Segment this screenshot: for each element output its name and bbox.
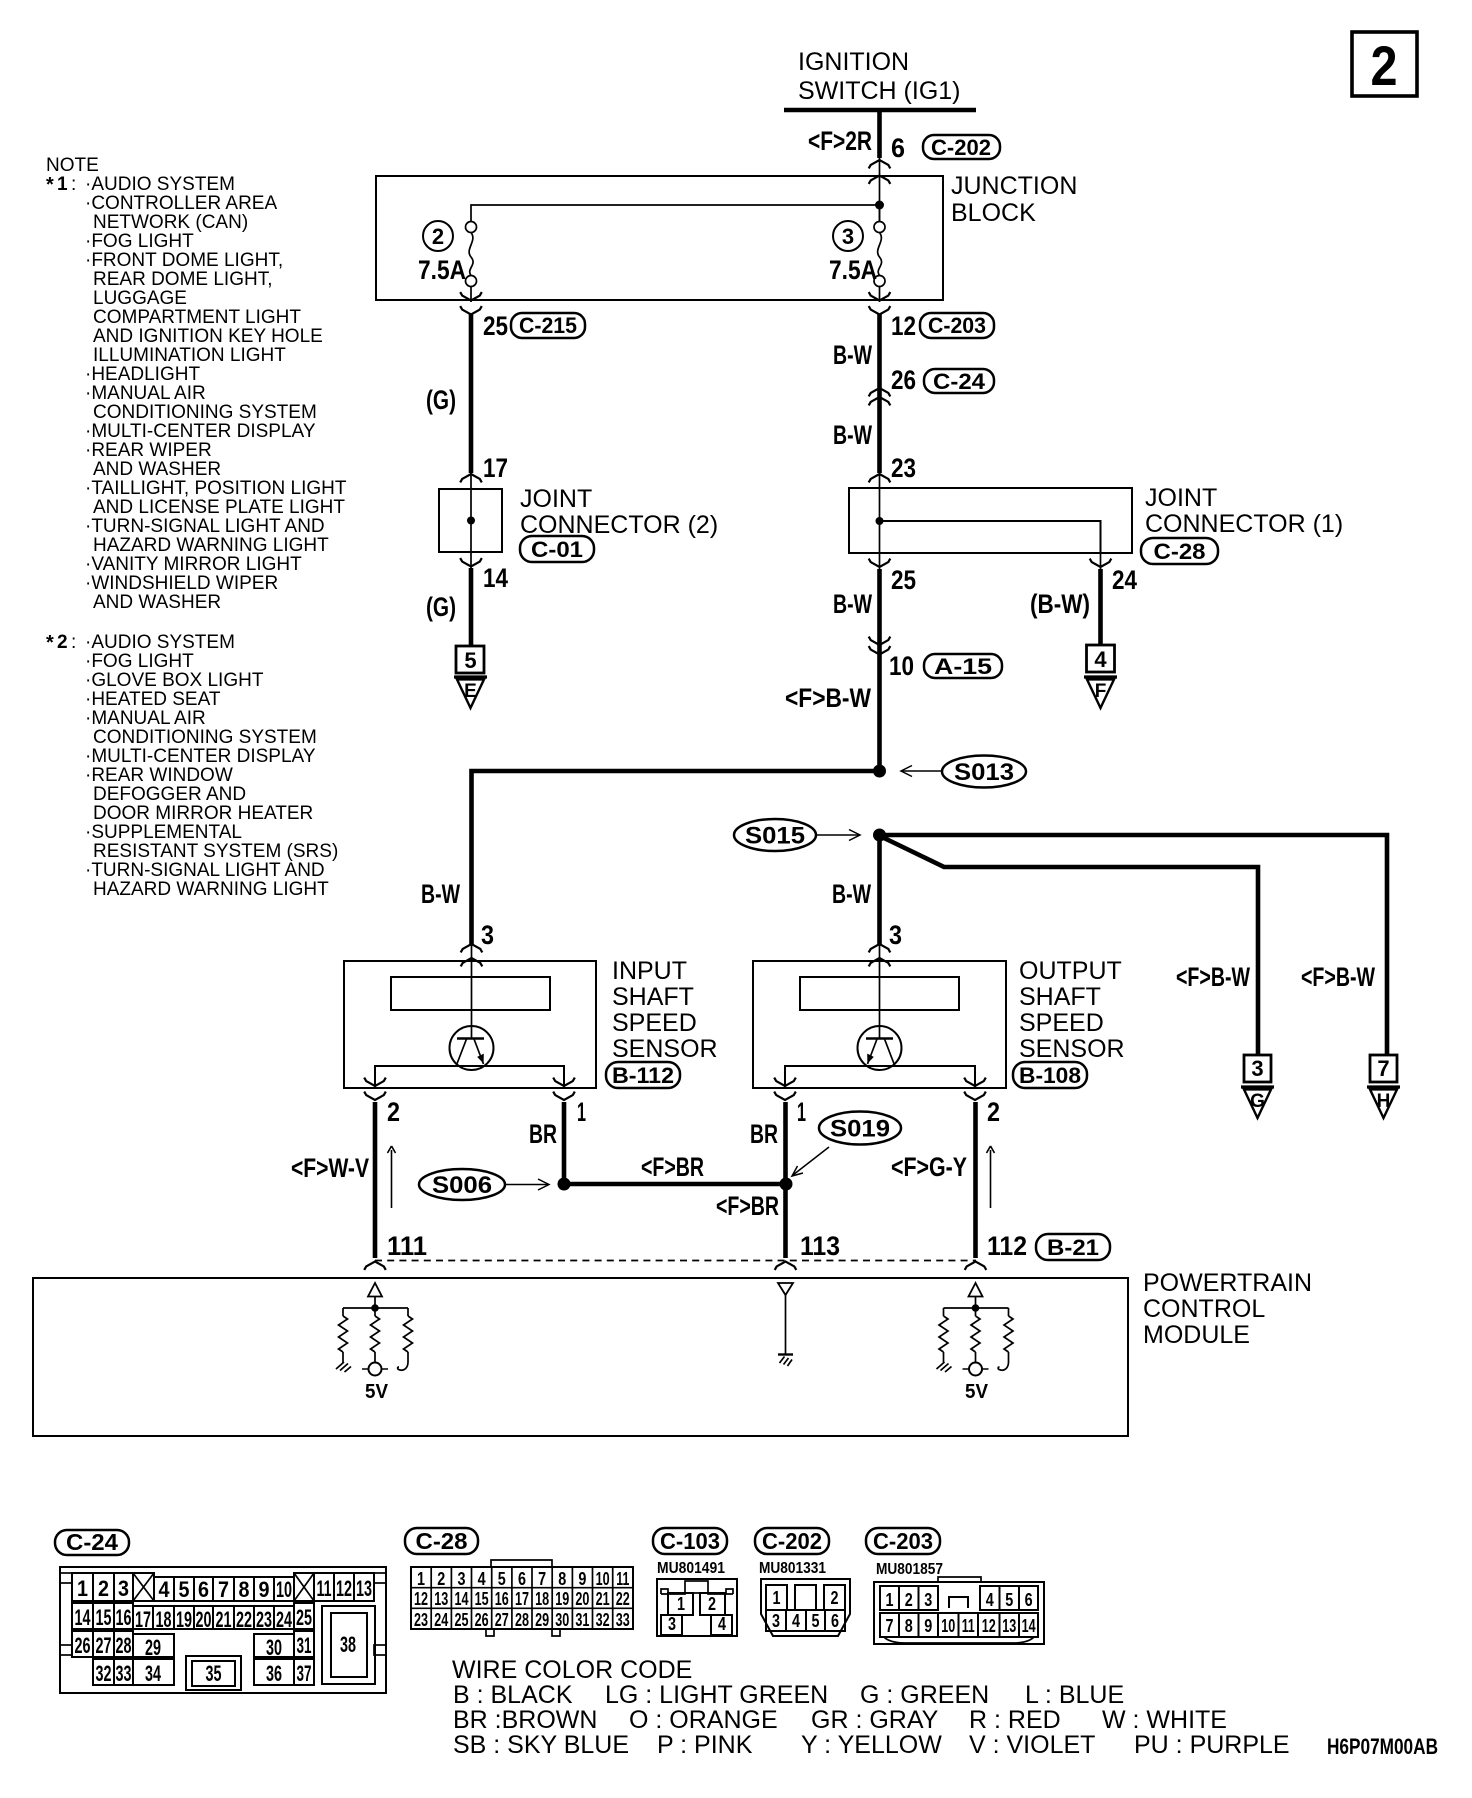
svg-text:RESISTANT SYSTEM (SRS): RESISTANT SYSTEM (SRS)	[93, 841, 338, 862]
wire F BR horizontal	[564, 1182, 786, 1187]
svg-text:7.5A: 7.5A	[418, 255, 466, 285]
svg-text:MU801491: MU801491	[657, 1560, 725, 1577]
svg-text:C-202: C-202	[931, 135, 991, 160]
svg-text:·GLOVE BOX LIGHT: ·GLOVE BOX LIGHT	[85, 670, 264, 691]
svg-text:CONDITIONING SYSTEM: CONDITIONING SYSTEM	[93, 402, 317, 423]
svg-text:6: 6	[891, 133, 905, 163]
direction arrow up left	[388, 1146, 396, 1208]
S019 ellipse label	[819, 1112, 901, 1145]
svg-text:BR: BR	[750, 1119, 778, 1149]
svg-text:HAZARD WARNING LIGHT: HAZARD WARNING LIGHT	[93, 535, 329, 556]
svg-text:<F>W-V: <F>W-V	[291, 1153, 369, 1183]
fuse outputs to box bottom	[471, 287, 880, 303]
PCM connector dashed line	[375, 1260, 976, 1262]
svg-text:3: 3	[118, 1576, 129, 1601]
wire color code line 2	[453, 1706, 1227, 1734]
ignition switch label	[798, 48, 961, 105]
svg-text:G : GREEN: G : GREEN	[860, 1681, 989, 1709]
svg-text:O : ORANGE: O : ORANGE	[629, 1706, 778, 1734]
svg-text:·FRONT DOME LIGHT,: ·FRONT DOME LIGHT,	[85, 250, 283, 271]
svg-text:*: *	[46, 174, 54, 196]
svg-text:R : RED: R : RED	[969, 1706, 1061, 1734]
chevron out of joint connector 2	[460, 552, 482, 569]
svg-text:26: 26	[475, 1610, 489, 1630]
pin 6 label	[891, 133, 905, 163]
ground left	[336, 1352, 351, 1372]
connector B-112 label	[606, 1062, 680, 1088]
S019 arrow	[792, 1147, 829, 1176]
C-203 part number MU801857	[876, 1561, 943, 1578]
PCM left node	[371, 1304, 379, 1312]
svg-text:17: 17	[483, 453, 508, 483]
connector C-28 pinout label	[405, 1528, 478, 1554]
connector C-28 label	[1141, 538, 1218, 564]
pin 1 label input	[577, 1097, 586, 1127]
connector C-202 pinout body	[761, 1579, 850, 1636]
svg-text:Y : YELLOW: Y : YELLOW	[801, 1731, 942, 1759]
svg-text:S015: S015	[745, 823, 805, 850]
svg-text:SB : SKY BLUE: SB : SKY BLUE	[453, 1731, 629, 1759]
wire output pin2 to PCM 112	[973, 1102, 978, 1258]
connector C-24 label top	[924, 369, 994, 394]
svg-text:<F>2R: <F>2R	[808, 126, 872, 156]
svg-text:POWERTRAIN: POWERTRAIN	[1143, 1269, 1312, 1297]
svg-text:C-202: C-202	[762, 1528, 822, 1554]
wire (G) junction block to joint connector 2	[469, 314, 474, 474]
svg-text:14: 14	[75, 1605, 91, 1630]
note text block	[46, 155, 347, 900]
svg-text:G: G	[1250, 1091, 1265, 1112]
wire input pin2 to PCM 111	[373, 1102, 378, 1258]
svg-text:19: 19	[555, 1589, 569, 1609]
wire color F BR above	[641, 1152, 704, 1182]
svg-text:B-W: B-W	[833, 340, 872, 370]
chevron out of JC1 pin 24	[1090, 553, 1112, 570]
S006 ellipse label	[419, 1169, 505, 1200]
svg-text:CONTROL: CONTROL	[1143, 1295, 1265, 1323]
wire color (B-W)	[1030, 589, 1090, 619]
svg-text:(G): (G)	[426, 592, 456, 622]
connector C-28 pinout body	[411, 1560, 633, 1636]
svg-text:·FOG LIGHT: ·FOG LIGHT	[85, 231, 194, 252]
joint connector 2 label	[520, 485, 718, 539]
chevron into joint connector 1	[869, 473, 891, 488]
page number frame 2	[1352, 32, 1417, 97]
5V source right	[963, 1352, 989, 1376]
C-202 part number MU801331	[759, 1560, 826, 1577]
svg-text:B : BLACK: B : BLACK	[453, 1681, 573, 1709]
fuse 2 rating 7.5A	[418, 255, 466, 285]
svg-text:AND WASHER: AND WASHER	[93, 592, 221, 613]
svg-text:·MULTI-CENTER DISPLAY: ·MULTI-CENTER DISPLAY	[85, 746, 316, 767]
svg-text:SHAFT: SHAFT	[612, 983, 694, 1011]
svg-text:B-112: B-112	[612, 1063, 674, 1088]
svg-text:10: 10	[941, 1616, 955, 1636]
pin 2 label output	[987, 1097, 1000, 1127]
svg-text:8: 8	[239, 1577, 250, 1602]
svg-text:V : VIOLET: V : VIOLET	[969, 1731, 1095, 1759]
svg-text:B-21: B-21	[1047, 1235, 1099, 1260]
svg-text:10: 10	[276, 1577, 292, 1602]
svg-text:·REAR WIPER: ·REAR WIPER	[85, 440, 212, 461]
svg-text:14: 14	[1022, 1616, 1036, 1636]
svg-text:35: 35	[206, 1661, 222, 1686]
resistor R6	[1004, 1316, 1013, 1352]
svg-text:13: 13	[356, 1576, 372, 1601]
svg-text:5V: 5V	[965, 1381, 989, 1403]
svg-text:28: 28	[116, 1633, 132, 1658]
wire B-W junction block to C-24	[877, 314, 882, 474]
svg-text:SPEED: SPEED	[612, 1009, 697, 1037]
input sensor label	[612, 957, 718, 1063]
svg-text:3: 3	[668, 1614, 676, 1634]
svg-text:25: 25	[891, 565, 916, 595]
PCM entry chevron 111	[364, 1262, 386, 1270]
joint connector 1 label	[1145, 484, 1343, 538]
C-24 row1 cells	[72, 1573, 374, 1602]
svg-text:E: E	[464, 681, 477, 702]
svg-text:6: 6	[198, 1577, 209, 1602]
svg-text:16: 16	[116, 1605, 132, 1630]
svg-text:NETWORK (CAN): NETWORK (CAN)	[93, 212, 248, 233]
svg-text:34: 34	[145, 1661, 161, 1686]
svg-text:PU : PURPLE: PU : PURPLE	[1134, 1731, 1290, 1759]
junction block box	[376, 176, 943, 300]
fuse 3 rating 7.5A	[829, 255, 877, 285]
svg-text:31: 31	[575, 1610, 589, 1630]
svg-text:25: 25	[296, 1605, 312, 1630]
ignition switch bus bar	[784, 108, 976, 113]
svg-text::: :	[71, 174, 76, 195]
wire color B-W third	[833, 589, 872, 619]
junction block exit chevrons left	[460, 292, 482, 314]
far right wire color F B-W second	[1301, 962, 1375, 992]
svg-text:6: 6	[518, 1569, 526, 1589]
svg-text:C-28: C-28	[1154, 539, 1206, 564]
svg-text:GR : GRAY: GR : GRAY	[811, 1706, 939, 1734]
svg-text:·AUDIO SYSTEM: ·AUDIO SYSTEM	[85, 632, 235, 653]
svg-text:S019: S019	[830, 1116, 890, 1143]
svg-text:2: 2	[831, 1588, 839, 1608]
svg-text:7.5A: 7.5A	[829, 255, 877, 285]
wire (G) to ground E	[469, 568, 474, 646]
resistor R1	[339, 1316, 348, 1352]
wire color B-W right sensor	[832, 879, 871, 909]
connector C-202 crossing chevrons	[869, 160, 891, 184]
svg-text:30: 30	[266, 1635, 282, 1660]
svg-text:12: 12	[414, 1589, 428, 1609]
svg-text:6: 6	[831, 1611, 839, 1631]
svg-text:·TAILLIGHT, POSITION LIGHT: ·TAILLIGHT, POSITION LIGHT	[85, 478, 347, 499]
svg-text:5: 5	[812, 1611, 820, 1631]
svg-text:·SUPPLEMENTAL: ·SUPPLEMENTAL	[85, 822, 242, 843]
svg-text:3: 3	[842, 224, 854, 249]
svg-text:5: 5	[464, 648, 476, 673]
left hook lead	[398, 1352, 408, 1370]
svg-text:·HEATED SEAT: ·HEATED SEAT	[85, 689, 221, 710]
connector B-21 label	[1036, 1234, 1110, 1260]
svg-text:3: 3	[1251, 1056, 1263, 1081]
svg-text:4: 4	[718, 1614, 726, 1634]
wire BR output pin1 to PCM 113	[783, 1102, 788, 1258]
svg-text:H: H	[1377, 1091, 1391, 1112]
svg-text:32: 32	[96, 1661, 112, 1686]
wire ignition to junction block	[877, 110, 882, 222]
junction node	[875, 201, 884, 210]
svg-text:10: 10	[596, 1569, 610, 1589]
svg-text:24: 24	[1112, 565, 1137, 595]
connector C-24 pinout body	[60, 1567, 386, 1693]
svg-text:1: 1	[886, 1590, 894, 1610]
pin 24 label	[1112, 565, 1137, 595]
input sensor pin 3	[461, 920, 494, 966]
C-103 part number MU801491	[657, 1560, 725, 1577]
svg-text::: :	[71, 632, 76, 653]
pin 26 label	[891, 365, 916, 395]
svg-text:21: 21	[596, 1589, 610, 1609]
svg-text:<F>B-W: <F>B-W	[1176, 962, 1250, 992]
label F2R	[808, 126, 872, 156]
svg-text:13: 13	[1002, 1616, 1016, 1636]
svg-text:113: 113	[800, 1231, 840, 1261]
PCM right node	[972, 1304, 980, 1312]
svg-text:4: 4	[1094, 647, 1107, 672]
input sensor pin 1 exit chevrons	[553, 1078, 575, 1100]
S006 arrow	[506, 1179, 549, 1190]
S015 arrow	[817, 830, 860, 841]
svg-text:18: 18	[535, 1589, 549, 1609]
svg-text:CONDITIONING SYSTEM: CONDITIONING SYSTEM	[93, 727, 317, 748]
svg-text:14: 14	[483, 563, 508, 593]
svg-text:1: 1	[677, 1594, 685, 1614]
output shaft speed sensor box B-108	[753, 961, 1006, 1088]
connector A-15 crossing chevrons	[869, 637, 891, 655]
svg-text:(B-W): (B-W)	[1030, 589, 1090, 619]
svg-text:1: 1	[797, 1097, 806, 1127]
svg-text:F: F	[1095, 681, 1107, 702]
svg-text:112: 112	[987, 1231, 1027, 1261]
svg-text:CONNECTOR (1): CONNECTOR (1)	[1145, 510, 1343, 538]
svg-text:22: 22	[236, 1607, 252, 1632]
resistor R3	[404, 1316, 413, 1352]
wire S013 to input sensor	[472, 771, 880, 944]
svg-text:5V: 5V	[365, 1381, 389, 1403]
svg-text:B-108: B-108	[1019, 1063, 1081, 1088]
wire color F BR below	[716, 1191, 779, 1221]
svg-text:3: 3	[772, 1611, 780, 1631]
svg-text:1: 1	[417, 1569, 425, 1589]
svg-text:2: 2	[387, 1097, 400, 1127]
svg-text:C-01: C-01	[531, 537, 583, 562]
ground middle	[778, 1355, 793, 1367]
pin 112 label	[987, 1231, 1027, 1261]
pin 14 label	[483, 563, 508, 593]
svg-text:COMPARTMENT LIGHT: COMPARTMENT LIGHT	[93, 307, 301, 328]
svg-text:13: 13	[434, 1589, 448, 1609]
svg-text:9: 9	[924, 1616, 932, 1636]
svg-text:L : BLUE: L : BLUE	[1025, 1681, 1124, 1709]
wire color BR left	[529, 1119, 557, 1149]
svg-text:LUGGAGE: LUGGAGE	[93, 288, 187, 309]
wire color F B-W	[785, 683, 871, 713]
svg-text:5: 5	[179, 1577, 190, 1602]
svg-text:DOOR MIRROR HEATER: DOOR MIRROR HEATER	[93, 803, 313, 824]
junction block internal feed wire	[471, 205, 880, 222]
svg-text:2: 2	[437, 1569, 445, 1589]
wire color F G-Y	[891, 1152, 967, 1182]
output sensor label	[1019, 957, 1125, 1063]
svg-text:LG : LIGHT GREEN: LG : LIGHT GREEN	[605, 1681, 828, 1709]
svg-text:C-24: C-24	[66, 1529, 118, 1555]
C-24 pin 38 cell	[322, 1606, 375, 1684]
svg-text:IGNITION: IGNITION	[798, 48, 909, 76]
pin 17 label	[483, 453, 508, 483]
ground G triangle	[1241, 1087, 1274, 1118]
fuse 3 number	[833, 221, 863, 251]
svg-text:AND LICENSE PLATE LIGHT: AND LICENSE PLATE LIGHT	[93, 497, 345, 518]
right hook lead	[998, 1352, 1008, 1370]
svg-text:7: 7	[1377, 1056, 1389, 1081]
svg-text:·HEADLIGHT: ·HEADLIGHT	[85, 364, 200, 385]
svg-text:7: 7	[886, 1616, 894, 1636]
svg-text:OUTPUT: OUTPUT	[1019, 957, 1122, 985]
svg-text:*: *	[46, 632, 54, 654]
ground F triangle	[1084, 677, 1117, 708]
connector C-203 pinout label	[866, 1528, 940, 1554]
ground E triangle	[454, 677, 487, 708]
svg-text:·MANUAL AIR: ·MANUAL AIR	[85, 383, 206, 404]
svg-text:JOINT: JOINT	[1145, 484, 1217, 512]
PCM entry chevron 112	[965, 1262, 987, 1270]
connector C-215 label	[511, 313, 585, 338]
wire color code title	[452, 1656, 692, 1684]
svg-text:23: 23	[891, 453, 916, 483]
chevron out of JC1 pin 25	[869, 553, 891, 570]
svg-text:·MANUAL AIR: ·MANUAL AIR	[85, 708, 206, 729]
ground right	[937, 1352, 952, 1372]
svg-text:<F>BR: <F>BR	[641, 1152, 704, 1182]
svg-text:C-28: C-28	[416, 1528, 468, 1554]
svg-text:A-15: A-15	[934, 654, 992, 679]
output sensor pin 3	[869, 920, 902, 966]
svg-text:·AUDIO SYSTEM: ·AUDIO SYSTEM	[85, 174, 235, 195]
svg-text:C-203: C-203	[928, 313, 986, 338]
svg-text:SWITCH (IG1): SWITCH (IG1)	[798, 77, 961, 105]
svg-text:BLOCK: BLOCK	[951, 199, 1036, 227]
svg-text:NOTE: NOTE	[46, 155, 99, 176]
svg-text:AND IGNITION KEY HOLE: AND IGNITION KEY HOLE	[93, 326, 323, 347]
svg-text:B-W: B-W	[833, 589, 872, 619]
connector B-108 label	[1013, 1062, 1087, 1088]
svg-text:26: 26	[891, 365, 916, 395]
svg-text:MU801857: MU801857	[876, 1561, 943, 1578]
svg-text:37: 37	[297, 1661, 312, 1686]
svg-text:24: 24	[276, 1607, 292, 1632]
PCM input circuit left: triangle	[368, 1283, 382, 1316]
svg-text:14: 14	[455, 1589, 469, 1609]
svg-text:23: 23	[256, 1607, 272, 1632]
svg-text:4: 4	[986, 1590, 994, 1610]
svg-text:H6P07M00AB: H6P07M00AB	[1327, 1734, 1438, 1759]
wire color (G) lower	[426, 592, 456, 622]
svg-text:<F>G-Y: <F>G-Y	[891, 1152, 967, 1182]
wire BR input pin1	[562, 1102, 567, 1184]
svg-text:·WINDSHIELD WIPER: ·WINDSHIELD WIPER	[85, 573, 278, 594]
svg-text:·TURN-SIGNAL LIGHT AND: ·TURN-SIGNAL LIGHT AND	[85, 860, 325, 881]
svg-text:22: 22	[616, 1589, 630, 1609]
connector C-202 pinout label	[755, 1528, 829, 1554]
svg-text:30: 30	[555, 1610, 569, 1630]
svg-text:(G): (G)	[426, 385, 456, 415]
PCM middle ground circuit: triangle down	[778, 1283, 793, 1354]
svg-text:HAZARD WARNING LIGHT: HAZARD WARNING LIGHT	[93, 879, 329, 900]
connector C-203 label top	[920, 313, 994, 338]
wire to terminal 4	[1098, 569, 1103, 646]
svg-text:24: 24	[434, 1610, 448, 1630]
svg-text:12: 12	[336, 1576, 352, 1601]
svg-text:26: 26	[75, 1633, 91, 1658]
svg-text:2: 2	[57, 632, 68, 653]
svg-text:20: 20	[196, 1607, 212, 1632]
drawing number H6P07M00AB	[1327, 1734, 1438, 1759]
connector C-203 pinout body	[874, 1577, 1044, 1644]
svg-text:3: 3	[889, 920, 902, 950]
svg-text:29: 29	[535, 1610, 549, 1630]
svg-text:2: 2	[432, 224, 444, 249]
svg-text:2: 2	[98, 1576, 109, 1601]
svg-text:23: 23	[414, 1610, 428, 1630]
svg-text:38: 38	[340, 1632, 356, 1657]
pin 25 label JC1	[891, 565, 916, 595]
output sensor pin 1 exit chevrons	[774, 1078, 796, 1100]
svg-text:B-W: B-W	[421, 879, 460, 909]
resistor R2	[371, 1316, 380, 1352]
wire color (G)	[426, 385, 456, 415]
junction block exit chevrons right	[869, 292, 891, 314]
svg-text:·MULTI-CENTER DISPLAY: ·MULTI-CENTER DISPLAY	[85, 421, 316, 442]
svg-text:C-24: C-24	[933, 369, 986, 394]
S015 ellipse label	[734, 819, 816, 851]
svg-text:·CONTROLLER AREA: ·CONTROLLER AREA	[85, 193, 277, 214]
fuse 3	[874, 205, 885, 287]
connector C-103 pinout label	[653, 1528, 727, 1554]
svg-text:C-103: C-103	[660, 1528, 720, 1554]
svg-text:25: 25	[455, 1610, 469, 1630]
wire color B-W left sensor	[421, 879, 460, 909]
svg-text:S013: S013	[954, 759, 1014, 786]
svg-text:36: 36	[266, 1661, 282, 1686]
C-24 row4 cells	[93, 1656, 314, 1690]
svg-text:JOINT: JOINT	[520, 485, 592, 513]
svg-text:2: 2	[987, 1097, 1000, 1127]
connector C-202 label	[923, 135, 1000, 160]
connector A-15 label	[924, 654, 1002, 679]
joint connector 2 box	[439, 489, 502, 552]
svg-text:32: 32	[596, 1610, 610, 1630]
svg-text:33: 33	[616, 1610, 630, 1630]
svg-text:3: 3	[458, 1569, 466, 1589]
pin 10 label	[889, 651, 914, 681]
fuse 2	[466, 222, 477, 287]
svg-text:P : PINK: P : PINK	[657, 1731, 753, 1759]
terminal box 5	[456, 646, 484, 673]
pin 111 label	[387, 1231, 427, 1261]
svg-text:BR :BROWN: BR :BROWN	[453, 1706, 597, 1734]
svg-text:6: 6	[1025, 1590, 1033, 1610]
wire B-W to A-15	[877, 569, 882, 771]
svg-text:C-215: C-215	[519, 313, 577, 338]
svg-text:1: 1	[57, 174, 68, 195]
